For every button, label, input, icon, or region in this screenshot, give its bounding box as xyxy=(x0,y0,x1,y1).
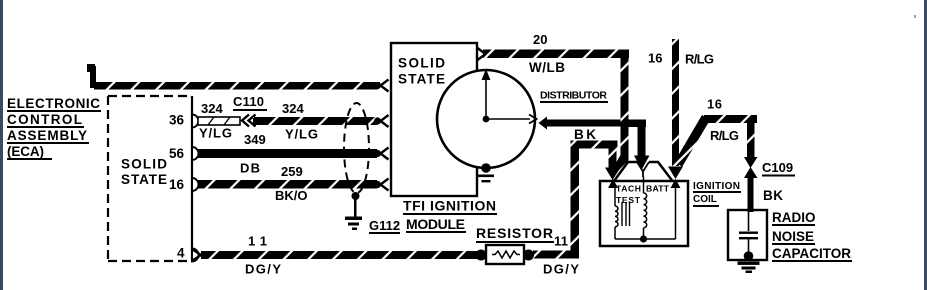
rotor center dot xyxy=(483,116,490,123)
shield loop dashed ellipse xyxy=(344,103,369,193)
svg-text:DG/Y: DG/Y xyxy=(543,262,579,277)
coil common node xyxy=(640,235,647,242)
label IGNITION COIL xyxy=(693,181,741,207)
connector C109 xyxy=(744,157,795,178)
right page border xyxy=(924,0,927,290)
left page border xyxy=(0,0,3,290)
svg-text:36: 36 xyxy=(169,113,185,128)
svg-text:TFI IGNITION: TFI IGNITION xyxy=(403,198,496,214)
svg-text:RADIO: RADIO xyxy=(772,210,816,225)
pin 56 xyxy=(169,146,199,161)
label RESISTOR xyxy=(476,225,554,243)
svg-text:R/LG: R/LG xyxy=(710,128,739,143)
svg-text:SOLID: SOLID xyxy=(398,56,445,71)
svg-text:16: 16 xyxy=(707,97,722,112)
radio noise capacitor box xyxy=(728,210,767,260)
wire BK to capacitor xyxy=(748,176,754,212)
TFI module box xyxy=(391,43,477,196)
svg-text:IGNITION: IGNITION xyxy=(693,181,740,192)
label RADIO NOISE CAPACITOR xyxy=(772,210,852,262)
distributor circle xyxy=(437,70,535,168)
label DISTRIBUTOR xyxy=(540,90,608,104)
svg-text:4: 4 xyxy=(177,246,185,261)
connector C110 xyxy=(233,94,267,127)
svg-text:SOLID: SOLID xyxy=(121,157,167,172)
coil internal bus xyxy=(615,188,676,239)
svg-text:RESISTOR: RESISTOR xyxy=(476,225,553,241)
ECA SOLID STATE text xyxy=(121,157,167,188)
svg-text:259: 259 xyxy=(281,164,303,179)
svg-text:DB: DB xyxy=(240,161,260,176)
shield drain dot xyxy=(352,192,360,200)
svg-text:(ECA): (ECA) xyxy=(7,144,44,159)
svg-text:ELECTRONIC: ELECTRONIC xyxy=(7,96,100,111)
svg-text:ASSEMBLY: ASSEMBLY xyxy=(7,128,87,143)
svg-text:COIL: COIL xyxy=(693,194,717,205)
ignition coil box xyxy=(600,181,688,246)
svg-text:C109: C109 xyxy=(762,160,793,175)
svg-text:W/LB: W/LB xyxy=(529,60,565,75)
svg-text:MODULE: MODULE xyxy=(406,216,465,232)
label ELECTRONIC CONTROL ASSEMBLY (ECA) xyxy=(7,96,101,160)
svg-text:BK/O: BK/O xyxy=(275,188,308,203)
wire 324 Y/LG thin (pin 36 to C110) xyxy=(198,117,240,125)
wire 16 R/LG vertical hatched xyxy=(668,39,683,179)
wire 324 Y/LG hatched (C110 to module) xyxy=(253,115,389,127)
resistor R xyxy=(476,245,535,264)
capacitor ground node xyxy=(744,251,754,261)
ground (capacitor) xyxy=(738,262,760,274)
wire 11 DG/Y hatched (pin 4 to resistor) xyxy=(193,250,480,261)
coil core xyxy=(622,202,630,226)
svg-text:TACH: TACH xyxy=(616,184,641,194)
svg-text:11: 11 xyxy=(554,234,568,249)
ECA dashed box xyxy=(108,96,192,261)
pin 36 xyxy=(169,113,199,128)
wire top hatched (to TFI module) xyxy=(87,64,389,92)
svg-text:CAPACITOR: CAPACITOR xyxy=(772,246,851,261)
wire 11 DG/Y to coil TACH (bridge) xyxy=(533,141,621,259)
shield drain wire xyxy=(354,199,357,217)
svg-text:56: 56 xyxy=(169,146,185,161)
svg-text:C110: C110 xyxy=(233,94,264,109)
rotor line to pickup xyxy=(486,118,530,120)
wire BK (distributor to coil) xyxy=(539,117,650,171)
distributor base dot xyxy=(481,163,491,173)
svg-text:STATE: STATE xyxy=(398,72,445,87)
TFI SOLID STATE text xyxy=(398,56,445,87)
svg-text:STATE: STATE xyxy=(121,172,167,187)
capacitor C xyxy=(739,210,758,255)
svg-text:Y/LG: Y/LG xyxy=(285,127,318,142)
svg-text:DISTRIBUTOR: DISTRIBUTOR xyxy=(540,90,607,102)
wire 16 R/LG slanted hatched xyxy=(675,115,757,167)
svg-text:16: 16 xyxy=(169,177,185,192)
label TFI IGNITION MODULE xyxy=(403,198,497,234)
svg-text:DG/Y: DG/Y xyxy=(245,262,281,277)
distributor ground xyxy=(478,175,494,183)
svg-text:324: 324 xyxy=(282,101,304,116)
coil tower notch xyxy=(637,162,649,177)
pin 16 xyxy=(169,177,199,192)
svg-text:NOISE: NOISE xyxy=(772,229,814,244)
coil terminal BATT arrow xyxy=(671,179,681,188)
ground G112 xyxy=(345,217,400,235)
svg-text:R/LG: R/LG xyxy=(685,52,714,67)
svg-text:CONTROL: CONTROL xyxy=(7,112,82,127)
wire 56 DB solid xyxy=(198,148,389,160)
coil primary winding xyxy=(615,188,618,239)
coil top cap xyxy=(614,162,673,181)
coil terminal TACH arrow xyxy=(608,179,618,188)
svg-text:TEST: TEST xyxy=(616,195,641,205)
pin 4 xyxy=(177,246,199,262)
svg-text:BATT: BATT xyxy=(646,184,670,194)
wire 20 W/LB hatched xyxy=(478,48,630,172)
svg-text:Y/LG: Y/LG xyxy=(199,126,232,141)
svg-text:BK: BK xyxy=(763,188,783,203)
svg-text:20: 20 xyxy=(533,32,547,47)
wire 259 BK/O hatched xyxy=(198,179,389,191)
pickup chevron xyxy=(529,115,537,124)
svg-text:16: 16 xyxy=(648,51,662,66)
speck xyxy=(914,15,916,18)
rotor up arrow xyxy=(482,69,491,119)
svg-text:324: 324 xyxy=(201,101,223,116)
svg-text:G112: G112 xyxy=(369,218,400,233)
svg-text:349: 349 xyxy=(244,132,266,147)
coil secondary winding xyxy=(644,177,647,239)
